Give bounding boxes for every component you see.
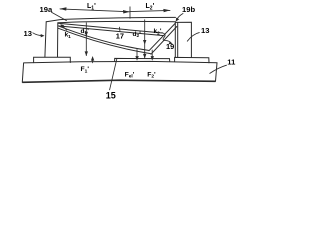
force F2' arrow <box>151 50 153 58</box>
svg-text:13: 13 <box>201 26 209 35</box>
leader 19a <box>52 12 67 20</box>
tilted plate top (gentle) <box>58 23 163 33</box>
svg-text:19: 19 <box>166 42 174 51</box>
svg-text:13: 13 <box>24 29 32 38</box>
arrowhead 19b <box>176 18 180 22</box>
leader 13 left <box>33 33 43 36</box>
arrow d1' <box>85 23 87 56</box>
V right branch upper <box>149 23 175 50</box>
arrow d2' <box>144 20 146 59</box>
leader 13 right <box>187 33 199 42</box>
base plate 11 <box>22 61 217 82</box>
dimension L2' line <box>130 10 170 11</box>
leader k1 arrow <box>62 25 67 30</box>
leader 19b <box>176 14 183 21</box>
left post <box>45 22 58 57</box>
tilted plate bottom (gentle) <box>58 26 164 36</box>
electrode block 15 <box>115 58 170 61</box>
dimension L1' line <box>60 9 130 12</box>
sagged plate bottom line <box>58 28 151 53</box>
svg-text:19a: 19a <box>40 5 53 14</box>
svg-text:11: 11 <box>227 57 236 66</box>
tick center <box>129 7 131 18</box>
force Fel' arrow <box>136 50 138 59</box>
base bottom edge <box>22 80 215 82</box>
svg-text:17: 17 <box>116 31 124 40</box>
arrowhead L1' left <box>60 7 67 10</box>
leader k2' zigzag <box>162 33 171 43</box>
left pedestal <box>34 57 71 62</box>
right pedestal <box>175 57 209 62</box>
leader 11 <box>210 65 227 73</box>
svg-text:19b: 19b <box>182 5 195 14</box>
right post <box>175 22 191 57</box>
leader 15 <box>110 59 117 90</box>
force F1' arrow <box>92 58 94 63</box>
arrowhead L1' right <box>123 10 130 14</box>
beam bottom line <box>58 21 176 22</box>
V right branch lower <box>151 27 177 55</box>
sagged plate line (steep) <box>58 26 149 51</box>
beam top line <box>46 17 175 21</box>
leader 17 <box>118 27 121 31</box>
svg-text:15: 15 <box>106 91 116 101</box>
arrowhead L2' right <box>163 9 170 12</box>
